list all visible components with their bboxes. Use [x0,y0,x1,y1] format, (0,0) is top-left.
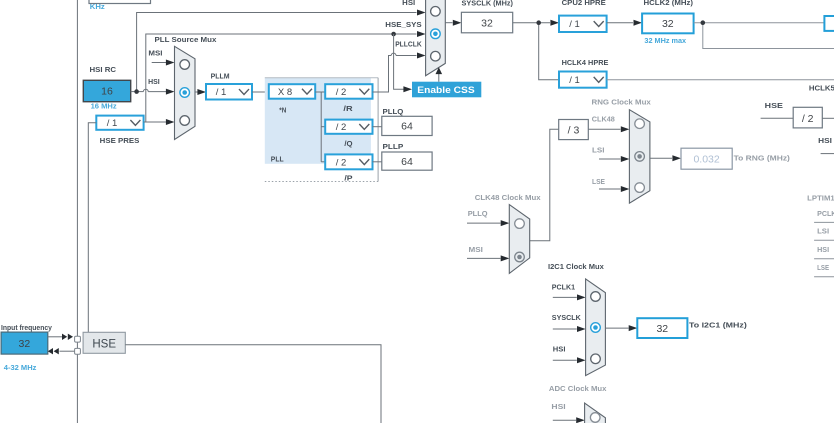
svg-text:LSI: LSI [817,227,829,236]
svg-text:PLLCLK: PLLCLK [395,40,422,49]
label PLL [271,154,284,163]
label PCLK1 (i2c1) [552,282,575,291]
dropdown *N (X 8) [269,84,315,99]
label PLLP [383,142,404,151]
svg-text:ADC Clock Mux: ADC Clock Mux [549,384,607,393]
svg-text:16 MHz: 16 MHz [91,101,117,110]
svg-text:I2C1 Clock Mux: I2C1 Clock Mux [548,262,605,271]
label HSE (RF) [765,101,783,110]
dropdown HSE PRES [96,116,143,130]
dropdown HCLK4 HPRE [559,72,607,88]
label MSI [148,48,162,57]
node: HSI junction [134,89,139,94]
label To RNG (MHz) [734,154,791,163]
dropdown CPU2 HPRE [559,16,607,32]
radio: RNG LSI (selected gray) [635,152,645,162]
svg-text:0.032: 0.032 [693,154,719,166]
svg-text:HSI: HSI [402,0,415,7]
svg-text:/ 2: / 2 [802,113,814,125]
label 16 MHz [91,101,117,110]
wire: HSI to system mux (up and over) [137,10,426,92]
dropdown /R [325,84,372,99]
svg-text:HSI: HSI [818,136,832,145]
svg-text:SYSCLK: SYSCLK [552,313,582,322]
wire: LSE into RNG mux [599,186,629,192]
wire: CLK48 into RNG mux [588,126,629,132]
wire: lptim lse stub [814,276,834,278]
wire: MSI into CLK48 mux [467,255,509,261]
svg-text:HSE: HSE [765,101,783,110]
wire: input freq to HSE (double arrow right) [48,334,73,340]
svg-text:/ 1: / 1 [216,87,227,98]
label LSI (lptim) [817,227,829,236]
node: HSE_SYS junction [391,32,396,37]
wire: I2C1 mux output [605,325,637,331]
label PLL Source Mux [155,35,218,44]
label HCLK5 [809,83,834,92]
label CPU2 HPRE [562,0,606,7]
svg-text:/ 2: / 2 [336,122,347,133]
wire: /R output up to PLLCLK with hop over CSS wire [373,53,426,93]
svg-text:Enable CSS: Enable CSS [417,85,474,95]
node: SYSCLK junction [536,20,541,25]
wire: RNG mux output to RNG value [650,155,681,161]
wire: HCLK2 output to right box and branch down right [694,23,834,49]
wire: CLK48 mux output up to /3 divider [530,129,559,240]
label HSI (pll mux input) [148,77,160,86]
svg-text:MSI: MSI [148,48,162,57]
svg-text:32: 32 [19,338,31,350]
wire: PLLQ into CLK48 mux [467,220,509,226]
svg-text:HCLK2 (MHz): HCLK2 (MHz) [644,0,694,7]
wire: HCLK4 output to right edge [607,79,834,81]
box LSI (cut off, KHz) [89,0,151,4]
svg-text:HSI: HSI [551,402,565,411]
wire: HSE riser from HSE box to HSE PRES input [88,123,96,333]
wire: CSS branch from HSE_SYS down to Enable CSS [394,34,412,92]
radio: I2C1 PCLK1 (unselected) [591,292,601,302]
wire: HSE to input freq (double arrow left) [48,348,75,354]
wire: /P output to PLLP box [373,161,382,163]
label LPTIM1 (cut) [807,193,834,202]
wire: HSI RC output with hop over HSE riser [131,89,175,95]
oscillator HSI RC value box [83,80,130,101]
svg-text:PLLP: PLLP [383,142,404,151]
label HSI (lptim) [817,245,829,254]
mux: CLK48 Clock Mux [509,205,529,274]
label /Q [344,139,352,148]
radio: PLL mux HSI (selected) [180,88,190,98]
label LSI (rng) [592,145,605,154]
wire: PCLK1 into I2C1 mux [553,294,586,300]
wire: HSI stub right edge [821,153,834,155]
wire: /2 output to right edge [822,117,834,119]
label HSI (adc) [551,402,565,411]
wire: Enable CSS arrow up into mux [436,67,443,82]
label PLLM [211,72,230,81]
wire: SYSCLK into I2C1 mux [553,326,586,332]
radio: sys mux HSE_SYS (selected) [431,29,441,39]
radio: I2C1 SYSCLK (selected) [591,323,601,333]
svg-text:32: 32 [481,17,493,29]
box PLLQ value [382,116,432,135]
svg-text:LSE: LSE [817,263,829,272]
svg-text:To RNG (MHz): To RNG (MHz) [734,154,791,163]
dropdown /Q [325,120,372,134]
svg-text:32: 32 [662,18,674,30]
svg-text:/ 2: / 2 [336,87,347,98]
wire: HSE output right and down [125,345,381,423]
radio: sys mux PLLCLK (unselected) [431,51,441,61]
label 4-32 MHz [4,363,37,372]
box SYSCLK value [461,12,512,33]
svg-text:32: 32 [656,323,668,335]
wire: *N output to /R and down to /Q /P [315,92,325,162]
svg-text:HSI RC: HSI RC [90,65,117,74]
svg-text:/ 1: / 1 [569,19,580,30]
radio: PLL mux HSE (unselected) [180,116,190,126]
box HCLK1 value (cut off right) [824,16,834,31]
svg-text:To I2C1 (MHz): To I2C1 (MHz) [689,320,747,329]
label To I2C1 (MHz) [689,320,747,329]
box To I2C1 value [637,318,687,338]
radio: CLK48 PLLQ (unselected) [515,219,525,229]
wire: lptim pclk1 stub [814,221,834,223]
box HCLK2 value [642,14,694,34]
wire: SYSCLK output to CPU2 HPRE with branch to HCLK4 HPRE [513,20,559,80]
wire: MSI stub into PLL mux [152,60,175,66]
svg-text:/ 1: / 1 [569,75,580,86]
wire: PLL mux output to PLLM [195,89,206,95]
radio: CLK48 MSI (selected gray) [515,252,525,262]
label HSI (RF) [818,136,832,145]
label /P [344,174,352,183]
svg-text:32 MHz max: 32 MHz max [644,36,687,45]
wire: left LSE/LSI rail [76,0,78,423]
wire: /Q output to PLLQ box [373,126,382,128]
svg-text:PCLK1: PCLK1 [817,209,834,218]
PLL block light blue background [265,78,378,182]
label SYSCLK (MHz) [462,0,514,7]
svg-text:X 8: X 8 [278,87,292,98]
label HSE PRES [100,136,140,145]
label HSI RC [90,65,117,74]
svg-text:PLL Source Mux: PLL Source Mux [155,35,218,44]
svg-text:HCLK4 HPRE: HCLK4 HPRE [562,58,609,67]
svg-text:/ 1: / 1 [107,118,118,129]
svg-text:HCLK5: HCLK5 [809,83,834,92]
wire: HSI into ADC mux [553,417,585,423]
dropdown /P [325,154,372,169]
radio: I2C1 HSI (unselected) [591,354,601,364]
label CLK48 Clock Mux [475,193,542,202]
label KHz [90,2,105,11]
wire: PLLM to *N [252,91,269,93]
box /3 divider [559,120,589,140]
button Enable CSS [412,82,481,98]
mux: PLL Source Mux [175,46,196,139]
dropdown PLLM [206,84,252,100]
svg-text:HSE: HSE [92,338,116,350]
svg-text:PLL: PLL [271,154,284,163]
svg-text:Input frequency: Input frequency [1,323,53,332]
wire: HSE PRES output to PLL mux and riser to HSE_SYS [144,31,426,125]
svg-text:/P: /P [344,174,352,183]
radio: ADC HSI (unselected, cut) [590,413,600,423]
box PLLP value [382,152,432,170]
svg-text:HSE_SYS: HSE_SYS [385,20,421,29]
label 32 MHz max [644,36,687,45]
wire: HSI into I2C1 mux [553,357,586,363]
label HCLK2 (MHz) [644,0,694,7]
mux: ADC Clock Mux (cut off bottom) [585,403,606,423]
svg-text:HSI: HSI [148,77,160,86]
radio: PLL mux MSI (unselected) [180,60,190,70]
label HSI (system mux input) [402,0,415,7]
label ADC Clock Mux [549,384,607,393]
svg-text:PLLQ: PLLQ [468,209,488,218]
wire: HSE to /2 box [761,117,794,119]
label PLLQ [383,107,404,116]
svg-text:PLLM: PLLM [211,72,230,81]
wire: CPU2 HPRE output to HCLK2 [607,20,643,26]
label Input frequency [1,323,53,332]
wire: lptim hsi stub [814,258,834,260]
svg-text:/R: /R [343,104,353,113]
svg-text:LSE: LSE [592,177,605,186]
svg-text:CLK48 Clock Mux: CLK48 Clock Mux [475,193,542,202]
svg-text:/ 2: / 2 [336,157,347,168]
svg-text:MSI: MSI [469,245,483,254]
radio: RNG CLK48 (unselected) [635,119,645,129]
label LSE (lptim) [817,263,829,272]
svg-text:PCLK1: PCLK1 [552,282,575,291]
svg-text:KHz: KHz [90,2,105,11]
radio: sys mux HSI (unselected) [431,7,441,17]
label HSE_SYS [385,20,421,29]
label I2C1 Clock Mux [548,262,605,271]
label HSI (i2c1) [553,345,566,354]
connector square lower (hse) [75,348,81,354]
svg-text:64: 64 [401,121,413,133]
svg-text:RNG Clock Mux: RNG Clock Mux [592,97,652,106]
label *N [279,105,286,114]
box To RNG value 0.032 [681,148,732,169]
label PLLCLK [395,40,422,49]
radio: RNG LSE (unselected) [635,183,645,193]
svg-text:HSI: HSI [817,245,829,254]
svg-text:/Q: /Q [344,139,352,148]
box /2 divider [793,107,822,128]
label CLK48 [592,115,615,124]
node: HCLK2 junction [701,20,706,25]
svg-text:4-32 MHz: 4-32 MHz [4,363,37,372]
block HSE oscillator [83,332,125,353]
label PCLK1 (lptim, cut) [817,209,834,218]
label /R [343,104,353,113]
mux: I2C1 Clock Mux [586,279,606,376]
wire: LSI into RNG mux [599,156,629,162]
label SYSCLK (i2c1) [552,313,582,322]
mux: RNG Clock Mux [629,110,650,204]
label PLLQ (clk48) [468,209,488,218]
svg-text:/ 3: / 3 [568,125,580,137]
label LSE (rng) [592,177,605,186]
svg-text:CPU2 HPRE: CPU2 HPRE [562,0,606,7]
svg-text:16: 16 [101,86,113,98]
svg-text:HSI: HSI [553,345,566,354]
svg-text:64: 64 [401,156,413,168]
label RNG Clock Mux [592,97,652,106]
wire: lptim lsi stub [814,239,834,241]
svg-text:*N: *N [279,105,286,114]
label MSI (clk48) [469,245,483,254]
mux: System Clock Mux [426,0,446,76]
svg-text:LPTIM1: LPTIM1 [807,193,834,202]
svg-text:LSI: LSI [592,145,605,154]
box Input frequency value [1,332,48,354]
svg-text:PLLQ: PLLQ [383,107,404,116]
wire: system mux output to SYSCLK [445,20,461,26]
svg-text:SYSCLK (MHz): SYSCLK (MHz) [462,0,514,7]
svg-text:HSE PRES: HSE PRES [100,136,140,145]
label HCLK4 HPRE [562,58,609,67]
svg-text:CLK48: CLK48 [592,115,615,124]
connector square upper (hse) [75,336,81,342]
